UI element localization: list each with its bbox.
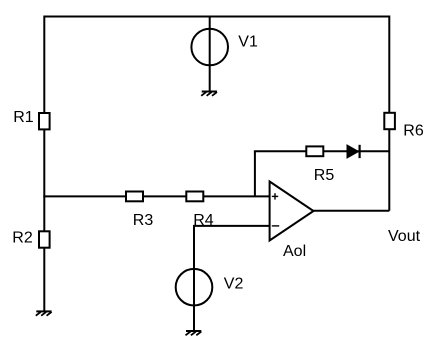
wire: V1 stem vertical (top rail through V1 to ground)	[209, 17, 211, 92]
resistor R4 (box symbol, middle wire)	[186, 192, 203, 202]
wire: V2 stem vertical (inverting node down through V2 to ground)	[193, 225, 195, 331]
ground symbol (below V2)	[186, 331, 202, 335]
voltage source V1 (circle symbol)	[191, 29, 228, 66]
diode D1 (anode triangle + cathode bar, feedback path)	[347, 145, 360, 158]
svg-text:R1: R1	[13, 109, 34, 126]
svg-text:R6: R6	[403, 123, 424, 140]
wire: top rail from left rail to right rail	[44, 16, 389, 18]
wire: feedback horizontal through R5 and diode to right rail	[254, 150, 389, 152]
resistor R2 (box symbol, left rail lower)	[39, 231, 50, 247]
wire: op-amp output to right rail	[314, 210, 390, 212]
svg-text:R4: R4	[193, 212, 214, 229]
wire: left rail (through R1, node A, R2, to ground)	[43, 16, 45, 312]
resistor R3 (box symbol, middle wire)	[126, 192, 143, 202]
op-amp U1 Aol (triangle body)	[270, 182, 314, 241]
op-amp pin marker: non-inverting input +	[272, 193, 278, 199]
voltage source V2 (circle symbol)	[176, 269, 213, 306]
ground symbol (bottom of left rail, below R2)	[36, 311, 52, 315]
wire: middle horizontal from node A through R3, R4 to op-amp + input	[43, 195, 269, 197]
svg-text:Vout: Vout	[388, 228, 421, 245]
wire: feedback vertical drop to + input node	[254, 151, 256, 196]
svg-text:Aol: Aol	[283, 243, 306, 260]
resistor R1 (box symbol, left rail)	[39, 113, 50, 129]
resistor R5 (box symbol, feedback path)	[306, 146, 323, 156]
svg-text:R2: R2	[12, 229, 33, 246]
svg-text:R3: R3	[133, 212, 154, 229]
svg-text:V1: V1	[238, 33, 258, 50]
resistor R6 (box symbol, right rail)	[384, 113, 395, 129]
ground symbol (below V1)	[201, 92, 217, 96]
svg-text:R5: R5	[314, 167, 335, 184]
wire: inverting input horizontal	[194, 225, 270, 227]
op-amp pin marker: inverting input -	[272, 225, 279, 227]
svg-text:V2: V2	[224, 276, 244, 293]
wire: right rail (through R6 down to output node Vout)	[388, 16, 390, 211]
